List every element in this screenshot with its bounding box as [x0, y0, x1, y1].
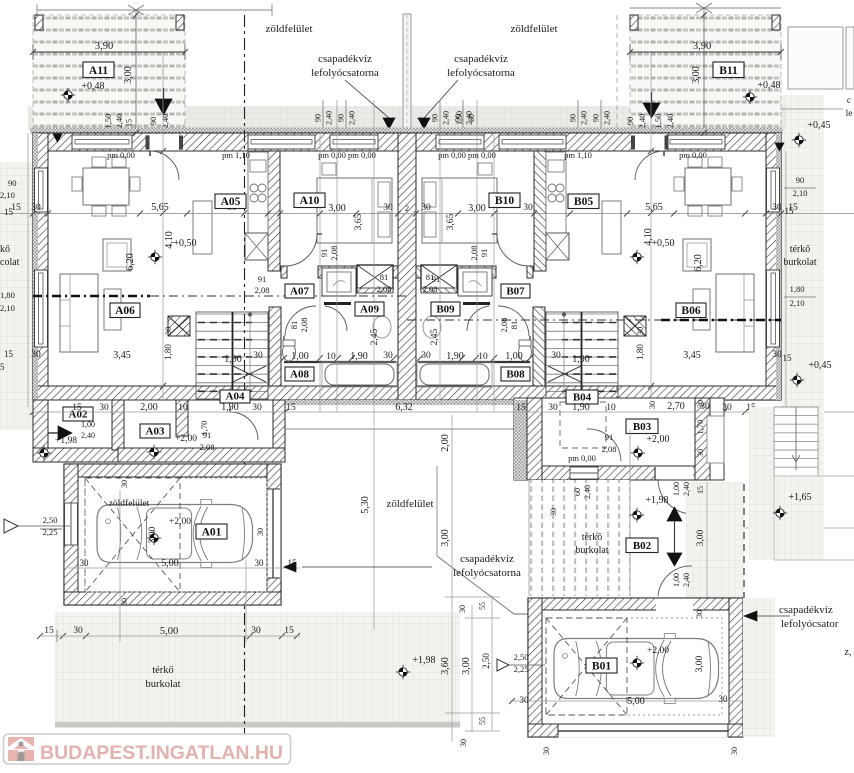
svg-text:+2,00: +2,00 — [175, 434, 197, 444]
svg-text:2,08: 2,08 — [423, 284, 438, 294]
svg-text:15: 15 — [125, 119, 134, 127]
wall stub A — [281, 266, 287, 278]
svg-text:1,70: 1,70 — [695, 420, 705, 435]
tick — [128, 5, 144, 15]
fridge A05 — [245, 233, 268, 260]
dim line 3,90 B11 — [630, 51, 781, 53]
dim line vertical A11 — [135, 10, 137, 133]
svg-text:burkolat: burkolat — [783, 257, 817, 268]
svg-text:+0,50: +0,50 — [173, 238, 196, 249]
garage B door opening bottom — [558, 725, 728, 738]
wall A02/A03 divider — [112, 400, 124, 450]
door jambs B entrance — [631, 136, 635, 150]
svg-text:2,40: 2,40 — [583, 485, 592, 499]
wall A03 bottom — [118, 448, 285, 462]
svg-text:3,00: 3,00 — [123, 66, 134, 84]
svg-text:2,08: 2,08 — [469, 246, 479, 261]
svg-text:1,00: 1,00 — [672, 482, 681, 496]
svg-text:2,40: 2,40 — [348, 111, 357, 125]
svg-text:1,90: 1,90 — [221, 402, 239, 413]
svg-text:2,45: 2,45 — [430, 328, 440, 345]
grey band bottom — [55, 722, 460, 728]
site boundary line top-right — [630, 7, 781, 9]
svg-text:2,50: 2,50 — [43, 515, 58, 525]
svg-text:30: 30 — [73, 626, 83, 636]
room label B02 — [626, 538, 658, 553]
window A10 top — [330, 135, 378, 149]
svg-text:30: 30 — [256, 528, 265, 536]
neighbour slab top right — [788, 27, 843, 89]
right margin dims — [785, 151, 787, 407]
door arc A07 — [285, 306, 316, 336]
paving right of B02 — [749, 407, 824, 560]
terrace B11 post right — [772, 15, 780, 30]
svg-text:30: 30 — [253, 351, 263, 361]
boundary dashed line x744 — [743, 484, 745, 598]
svg-text:z,: z, — [845, 647, 852, 658]
wall garage A right — [267, 464, 281, 605]
svg-text:B07: B07 — [506, 286, 525, 298]
svg-text:81: 81 — [380, 272, 389, 282]
survey marker +0,45 — [790, 373, 804, 387]
svg-text:+1,98: +1,98 — [55, 436, 77, 446]
survey marker B11 — [743, 90, 757, 104]
wall party centre — [398, 133, 416, 400]
svg-text:zöldfelület: zöldfelület — [109, 498, 150, 509]
svg-text:30: 30 — [772, 350, 782, 360]
svg-text:1,00: 1,00 — [672, 573, 681, 587]
svg-text:1,90: 1,90 — [350, 351, 368, 362]
svg-text:2,08: 2,08 — [299, 318, 309, 333]
svg-text:2,10: 2,10 — [0, 303, 15, 313]
survey marker B living — [630, 250, 644, 264]
toilet A — [283, 343, 296, 361]
door opening B entrance — [635, 134, 666, 151]
survey marker B02 — [630, 508, 644, 522]
svg-text:1,00: 1,00 — [81, 420, 95, 429]
svg-text:60: 60 — [467, 114, 476, 122]
window B06 right 2 — [767, 270, 780, 347]
svg-text:B08: B08 — [506, 369, 525, 381]
door arc A03 — [230, 412, 258, 440]
terrace A11 post right — [176, 15, 184, 30]
car B01 — [554, 634, 719, 704]
svg-text:A03: A03 — [146, 426, 165, 438]
svg-text:30: 30 — [551, 351, 561, 361]
svg-text:30: 30 — [523, 203, 533, 213]
wall bath A top — [318, 266, 398, 278]
ticks garage A dim — [37, 633, 43, 639]
svg-text:30: 30 — [549, 508, 558, 516]
ticks garage B dim — [509, 698, 515, 704]
svg-text:15: 15 — [785, 206, 795, 216]
paving strip right of B02 — [686, 482, 744, 598]
svg-text:+1,98: +1,98 — [645, 495, 668, 506]
svg-text:zöldfelület: zöldfelület — [510, 23, 557, 35]
svg-text:+0,50: +0,50 — [651, 238, 674, 249]
window A06 top — [72, 135, 132, 149]
svg-text:térkő: térkő — [152, 665, 174, 676]
svg-text:30: 30 — [520, 695, 530, 705]
svg-text:1,90: 1,90 — [446, 351, 464, 362]
B02 paved strip — [529, 480, 630, 596]
svg-text:15: 15 — [783, 353, 793, 363]
room label A10 — [294, 193, 325, 208]
door opening B02 exit — [655, 467, 693, 480]
svg-text:2,45: 2,45 — [370, 328, 380, 345]
terrace B11 deck — [630, 15, 781, 133]
survey marker mid — [396, 665, 410, 679]
svg-text:pm 1,10: pm 1,10 — [222, 150, 250, 160]
open arrow B — [497, 659, 509, 671]
wall garage B left — [528, 598, 542, 737]
svg-text:1,50: 1,50 — [455, 111, 464, 125]
dim line vertical B11 — [703, 8, 705, 133]
window B06 top — [667, 135, 725, 149]
wall garage A top — [64, 464, 281, 477]
garage A window left — [65, 503, 78, 545]
svg-text:+1,98: +1,98 — [412, 655, 435, 666]
door arc B04 — [587, 429, 621, 461]
svg-text:A08: A08 — [290, 369, 309, 381]
svg-text:1,80: 1,80 — [0, 290, 15, 300]
svg-text:30: 30 — [31, 350, 41, 360]
svg-text:+2,00: +2,00 — [647, 646, 669, 656]
svg-text:90: 90 — [625, 117, 635, 126]
survey marker A11 — [61, 88, 75, 102]
svg-text:30: 30 — [383, 203, 393, 213]
room label B04 — [566, 390, 598, 404]
svg-text:2,40: 2,40 — [603, 111, 612, 125]
room label B07 — [501, 284, 530, 298]
svg-text:B02: B02 — [633, 540, 652, 552]
dim row garage A y636 — [40, 635, 300, 637]
svg-text:30: 30 — [730, 747, 739, 755]
svg-text:zöldfelület: zöldfelület — [265, 23, 312, 35]
svg-text:10: 10 — [326, 352, 336, 362]
dim line y412 — [33, 411, 854, 413]
leader left — [345, 80, 389, 118]
door arc A entrance — [150, 151, 179, 180]
sill band above top wall — [30, 128, 783, 134]
svg-text:3,90: 3,90 — [95, 41, 113, 52]
survey marker A01 — [147, 531, 161, 545]
svg-text:90: 90 — [569, 114, 578, 122]
vestibule block A slab — [33, 400, 285, 462]
svg-text:30: 30 — [542, 747, 551, 755]
window B04 bottom — [570, 467, 598, 479]
door arc A09 entry — [325, 306, 347, 331]
svg-text:30: 30 — [80, 558, 90, 568]
window A06 left 2 — [35, 270, 48, 347]
svg-text:2,08: 2,08 — [602, 444, 617, 454]
svg-text:10: 10 — [478, 352, 488, 362]
terrace marking dashed A01 — [85, 478, 267, 592]
wall garage A left — [64, 464, 78, 605]
svg-text:csapadékvíz: csapadékvíz — [454, 53, 508, 65]
svg-text:15: 15 — [284, 626, 294, 636]
ticks A11 vert — [133, 12, 139, 18]
svg-text:81: 81 — [426, 272, 435, 282]
svg-text:3,00: 3,00 — [468, 203, 486, 214]
terrace marking dashed B01 — [546, 618, 722, 715]
svg-text:A07: A07 — [290, 286, 309, 298]
ticks B interior vert — [648, 148, 654, 154]
wall B03 right — [695, 398, 710, 480]
svg-text:55: 55 — [478, 717, 487, 725]
wall B04 left — [527, 398, 542, 480]
svg-text:2,10: 2,10 — [793, 188, 808, 198]
garage B entry door opening top — [656, 599, 693, 611]
svg-text:30: 30 — [458, 605, 467, 613]
svg-text:1,90: 1,90 — [572, 402, 590, 413]
svg-text:30: 30 — [772, 203, 782, 213]
vertical dim lines interior — [319, 133, 321, 412]
room label A02 — [63, 407, 93, 421]
arrow csapadekviz mid — [284, 562, 296, 572]
svg-text:csapadékvíz: csapadékvíz — [318, 53, 372, 65]
svg-text:B01: B01 — [592, 661, 611, 673]
svg-text:csapadékvíz: csapadékvíz — [779, 604, 833, 616]
svg-text:90: 90 — [8, 178, 17, 188]
svg-text:c: c — [847, 96, 851, 106]
car A01 — [97, 500, 253, 568]
wall B block bottom — [542, 466, 710, 480]
svg-text:2,08: 2,08 — [499, 318, 509, 333]
garden diagonal — [437, 556, 530, 614]
building floor slab — [33, 133, 781, 400]
interior unit A geometry — [60, 151, 398, 399]
dashed boundary x617 — [616, 15, 618, 133]
walk edge right — [744, 527, 854, 529]
svg-text:5: 5 — [0, 362, 5, 372]
svg-text:+2,00: +2,00 — [169, 517, 191, 527]
svg-text:30: 30 — [251, 626, 261, 636]
svg-text:lefolyócsator: lefolyócsator — [781, 618, 839, 630]
wall A03 divider 2 — [176, 400, 188, 436]
svg-text:3,00: 3,00 — [695, 655, 705, 672]
svg-text:+0,48: +0,48 — [81, 81, 104, 92]
outdoor stair right — [774, 407, 854, 560]
svg-text:6,32: 6,32 — [395, 402, 413, 413]
paving right of garage B — [743, 598, 775, 737]
boundary dash x617 — [616, 386, 618, 480]
drive arrow down — [667, 553, 682, 566]
door arc B entrance — [635, 151, 664, 180]
svg-text:1,00: 1,00 — [291, 351, 309, 362]
wall exterior left — [33, 133, 48, 400]
dim ticks y412 — [30, 409, 36, 415]
svg-text:3,00: 3,00 — [696, 529, 706, 546]
svg-text:A06: A06 — [115, 305, 135, 317]
svg-text:30: 30 — [421, 351, 431, 361]
svg-text:2,40: 2,40 — [160, 114, 170, 129]
svg-text:90: 90 — [431, 114, 440, 122]
svg-text:30: 30 — [719, 694, 729, 704]
window A06 left 1 — [35, 168, 48, 212]
svg-text:pm 0,00: pm 0,00 — [568, 453, 596, 463]
svg-text:1,50: 1,50 — [653, 114, 663, 129]
tick — [696, 3, 712, 13]
svg-text:A10: A10 — [300, 195, 320, 207]
svg-text:zöldfelület: zöldfelület — [386, 498, 433, 510]
svg-text:pm 0,00: pm 0,00 — [107, 150, 135, 160]
svg-text:81: 81 — [289, 321, 299, 330]
svg-text:2,50: 2,50 — [514, 652, 529, 662]
svg-text:térkő: térkő — [582, 532, 603, 543]
leader right — [424, 80, 458, 118]
svg-text:30: 30 — [383, 351, 393, 361]
shaft A vent — [357, 265, 393, 290]
terrace A11 deck — [33, 15, 185, 133]
svg-text:B05: B05 — [574, 196, 593, 208]
terrace B11 post left — [630, 15, 638, 30]
room label B01 — [586, 658, 617, 673]
svg-text:90: 90 — [592, 114, 601, 122]
svg-text:30: 30 — [163, 327, 173, 336]
room label B05 — [568, 194, 599, 209]
svg-text:30: 30 — [252, 403, 262, 413]
svg-text:+0,45: +0,45 — [808, 360, 831, 371]
svg-text:3,00: 3,00 — [691, 66, 702, 84]
svg-text:90: 90 — [796, 175, 805, 185]
svg-text:90: 90 — [337, 114, 346, 122]
svg-text:2: 2 — [405, 203, 409, 213]
svg-text:30: 30 — [421, 203, 431, 213]
svg-text:1,90: 1,90 — [224, 354, 242, 365]
sofa A06 — [60, 274, 98, 352]
kitchen counter A05 — [248, 152, 268, 233]
door arc A10 — [285, 234, 317, 266]
gutter arrow left — [383, 118, 395, 129]
svg-text:2,40: 2,40 — [580, 111, 589, 125]
svg-text:91: 91 — [319, 249, 329, 258]
svg-text:5,65: 5,65 — [645, 202, 663, 213]
survey marker A03 — [147, 445, 161, 459]
washbasin A — [373, 316, 391, 338]
svg-text:90: 90 — [148, 117, 158, 126]
arrow csapadekviz B — [744, 611, 757, 621]
svg-text:90: 90 — [314, 114, 323, 122]
room label A03 — [140, 424, 170, 438]
svg-text:csapadékvíz: csapadékvíz — [460, 553, 514, 565]
ticks B11 dim — [627, 49, 633, 55]
svg-text:2,40: 2,40 — [81, 431, 95, 440]
svg-text:le: le — [846, 109, 853, 119]
svg-text:91: 91 — [203, 430, 212, 440]
svg-text:2,40: 2,40 — [442, 111, 451, 125]
paving texture bottom left — [55, 612, 460, 723]
svg-text:30: 30 — [700, 402, 710, 412]
svg-text:3,60: 3,60 — [440, 657, 451, 675]
svg-text:pm 0,00 pm 0,00: pm 0,00 pm 0,00 — [438, 150, 496, 160]
svg-text:15: 15 — [4, 349, 14, 359]
svg-text:91: 91 — [258, 274, 267, 284]
garage B01 block — [528, 598, 743, 737]
survey marker A living — [148, 250, 162, 264]
svg-text:B06: B06 — [681, 305, 700, 317]
svg-text:3,45: 3,45 — [683, 350, 701, 361]
svg-text:2,00: 2,00 — [440, 434, 451, 452]
svg-text:2,40: 2,40 — [682, 482, 691, 496]
boundary dash-dot x244 — [244, 15, 246, 735]
niche B03 right — [707, 416, 724, 463]
svg-text:15: 15 — [72, 403, 82, 413]
paving texture left margin — [0, 162, 33, 430]
room label A09 — [355, 302, 384, 316]
shower A07 — [322, 268, 356, 296]
ticks A interior vert — [160, 148, 166, 154]
dim row garage A y568 — [68, 567, 300, 569]
vestibule block B slab — [514, 398, 724, 480]
room label A01 — [196, 524, 227, 539]
svg-text:2,50: 2,50 — [481, 653, 491, 669]
logo house icon — [8, 737, 34, 761]
coffee table A06 — [104, 289, 121, 330]
window B06 right 1 — [767, 168, 780, 212]
survey marker B01 — [630, 656, 644, 670]
svg-text:30: 30 — [255, 558, 265, 568]
svg-text:30: 30 — [648, 401, 657, 409]
grey gutter band above building — [28, 106, 786, 129]
svg-text:1,80: 1,80 — [790, 284, 805, 294]
svg-text:60: 60 — [573, 488, 582, 496]
insulation band left wall — [33, 133, 38, 400]
insulation band right wall — [776, 133, 781, 400]
room label B03 — [626, 419, 658, 434]
door arc garage B01 — [658, 566, 692, 596]
svg-text:2,40: 2,40 — [682, 573, 691, 587]
section line A (dash-dot) — [33, 295, 150, 297]
svg-text:+2,00: +2,00 — [646, 434, 669, 445]
room label A11 — [83, 62, 114, 78]
wall garage B bottom — [528, 724, 743, 737]
room label A06 — [110, 303, 140, 318]
paving texture right margin — [781, 95, 824, 407]
svg-text:30: 30 — [120, 598, 129, 606]
svg-text:2,08: 2,08 — [329, 246, 339, 261]
room label A05 — [215, 194, 246, 209]
wall bath A mid — [284, 361, 396, 363]
survey marker B03 — [631, 446, 645, 460]
wall exterior bottom — [33, 386, 781, 400]
stair dim line bold — [232, 312, 234, 397]
dim ticks bath B y358 — [417, 355, 423, 361]
svg-text:lefolyócsatorna: lefolyócsatorna — [447, 67, 515, 79]
svg-text:91: 91 — [605, 432, 614, 442]
garage A01 block — [64, 464, 281, 605]
svg-text:2,40: 2,40 — [665, 114, 675, 129]
survey marker A02 — [37, 446, 51, 460]
room label A07 — [285, 284, 314, 298]
svg-text:kő: kő — [0, 244, 10, 255]
wall stub A07 — [324, 302, 351, 305]
svg-text:+1,65: +1,65 — [788, 492, 811, 503]
svg-text:pm 1,10: pm 1,10 — [564, 150, 592, 160]
svg-text:2,10: 2,10 — [790, 298, 805, 308]
interior unit B geometry (mirror) — [416, 151, 754, 399]
svg-text:2,08: 2,08 — [377, 284, 392, 294]
dining table A06 — [83, 168, 129, 205]
bed A10 — [317, 178, 392, 243]
main horizontal dim line y213 — [0, 213, 854, 215]
wall exterior top — [33, 133, 781, 151]
svg-text:2,00: 2,00 — [140, 402, 158, 413]
survey marker +1,65 — [773, 506, 787, 520]
svg-text:15: 15 — [286, 403, 296, 413]
window A05 top — [248, 135, 315, 149]
svg-text:burkolat: burkolat — [575, 545, 609, 556]
